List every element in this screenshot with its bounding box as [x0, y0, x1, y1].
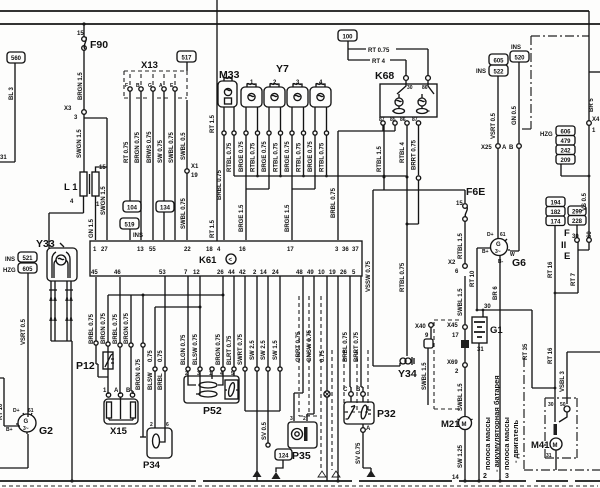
ground node 2 battery strap: [477, 473, 487, 483]
svg-text:BRBL 0.75: BRBL 0.75: [113, 313, 119, 344]
svg-text:F: F: [125, 83, 128, 89]
connector X45 pin 17: [447, 323, 467, 339]
svg-text:X69: X69: [447, 360, 458, 366]
svg-text:полоса массы: полоса массы: [502, 417, 511, 470]
wire BRBL 0.75 K61-46 to X15-A: [113, 277, 122, 394]
svg-text:RT 4: RT 4: [372, 59, 386, 65]
svg-text:560: 560: [11, 56, 22, 62]
svg-text:48: 48: [296, 270, 303, 276]
screen dash long: [318, 296, 340, 477]
svg-text:Y7: Y7: [276, 63, 289, 75]
injector Y7-3: [287, 80, 308, 135]
svg-text:BRBL 0.75: BRBL 0.75: [217, 169, 223, 200]
svg-text:RTBL 0.75: RTBL 0.75: [320, 142, 326, 172]
wire P52 mid pin: [210, 367, 214, 376]
svg-text:D+: D+: [487, 232, 494, 238]
svg-text:299: 299: [572, 210, 583, 216]
svg-text:VSSW 0.75: VSSW 0.75: [366, 260, 372, 292]
svg-text:X3: X3: [64, 106, 72, 112]
ignition switch terminals F II E 30/60: [561, 225, 593, 262]
svg-text:0.75: 0.75: [148, 350, 154, 362]
wire BR 5 from bus to X4: [589, 11, 600, 121]
svg-text:RT 35: RT 35: [523, 343, 529, 360]
ignition coil L1: [64, 165, 107, 208]
fuse F6E: [456, 186, 485, 264]
svg-text:M: M: [462, 422, 467, 428]
connector X3 pin 3: [64, 106, 86, 121]
wire BLSW K61-53 to P34: [148, 307, 157, 428]
wire BRGN 1.5 F90 to X3: [78, 72, 84, 100]
svg-text:17: 17: [452, 333, 459, 339]
svg-text:RT 10: RT 10: [470, 270, 476, 287]
wire BRBL 0.75 K61-45 to P12 branch: [89, 277, 108, 377]
ground dashed strap line bottom: [2, 485, 598, 487]
throttle potentiometer P52: [184, 371, 239, 417]
svg-text:SWBL 1.5: SWBL 1.5: [422, 362, 428, 390]
svg-text:INS: INS: [511, 45, 521, 51]
svg-text:37: 37: [352, 247, 359, 253]
svg-text:G: G: [148, 83, 152, 89]
svg-text:F90: F90: [90, 39, 108, 51]
svg-text:B+: B+: [482, 249, 489, 255]
svg-text:BR 5: BR 5: [589, 98, 595, 112]
wire BRRT 0.75 K61-5 to P32 B: [354, 276, 363, 392]
svg-text:G: G: [496, 242, 501, 248]
svg-text:VSBL 3: VSBL 3: [560, 370, 566, 392]
alternator G2: [6, 408, 53, 437]
svg-text:4: 4: [70, 199, 74, 205]
wire RTBL 0.75 inj4: [320, 135, 327, 176]
X13 pin G: [148, 74, 155, 91]
svg-text:2: 2: [303, 416, 306, 422]
svg-text:SWBL 1.5: SWBL 1.5: [458, 383, 464, 411]
wire RTBL 0.75 inj3: [297, 135, 304, 176]
svg-text:X1: X1: [191, 164, 199, 170]
wire RT 10 to G2 B+: [0, 378, 20, 426]
wire SWGN 1.5 X3 to coil L1 term left: [77, 114, 84, 172]
svg-text:SWGN 1.5: SWGN 1.5: [101, 186, 107, 215]
K61 bottom pin numbers: [91, 270, 356, 276]
svg-text:BRGN 0.75: BRGN 0.75: [136, 358, 142, 390]
svg-text:L 1: L 1: [64, 182, 78, 193]
svg-text:M41: M41: [531, 440, 550, 451]
svg-text:30: 30: [484, 304, 491, 310]
ground strap text engine: [502, 417, 520, 470]
wire RT 10 G6 B+ to battery rail: [470, 248, 489, 310]
svg-text:- двигатель: - двигатель: [511, 420, 520, 463]
svg-text:104: 104: [127, 206, 138, 212]
svg-text:SWBL 0.75: SWBL 0.75: [169, 131, 175, 163]
svg-text:194: 194: [550, 201, 561, 207]
relay K68: [375, 70, 437, 125]
svg-text:605: 605: [22, 267, 33, 273]
battery G1: [472, 304, 503, 353]
svg-text:1: 1: [93, 247, 97, 253]
svg-text:49: 49: [307, 270, 314, 276]
svg-text:C: C: [343, 387, 348, 393]
connector X25 pin B: [509, 144, 521, 151]
svg-text:7: 7: [184, 270, 188, 276]
svg-text:BRGN 0.75: BRGN 0.75: [216, 333, 222, 365]
wire RT 1.5 from bus 30 to K61: [210, 11, 217, 241]
svg-text:BRGE 0.75: BRGE 0.75: [262, 141, 268, 172]
wire BRGN 0.75 K61-26 to P52: [216, 276, 225, 376]
wire BRBL 0.75 M33 to K61: [217, 135, 224, 240]
svg-text:BLGN 0.75: BLGN 0.75: [181, 334, 187, 365]
wire VSRT 0.5 to X25-A: [491, 76, 498, 143]
svg-text:RTBL 4: RTBL 4: [400, 141, 406, 163]
X13 pin A: [159, 74, 166, 91]
svg-text:SW 2.5: SW 2.5: [261, 340, 267, 360]
svg-text:6: 6: [166, 422, 169, 428]
svg-text:60: 60: [587, 231, 593, 238]
svg-text:BRBL 0.75: BRBL 0.75: [331, 187, 337, 218]
svg-text:BRGE 0.75: BRGE 0.75: [285, 141, 291, 172]
wire RT 35 rail to starter: [523, 310, 555, 388]
svg-text:G1: G1: [490, 325, 503, 336]
wire SWBL 0.5 code 517 to X1: [181, 62, 187, 169]
wire BRGN 0.75 passing X15: [136, 295, 146, 437]
wire BRBL 0.75 K61-26 to P32 C: [343, 276, 351, 392]
wire BRGE 1.5 to K61 (inj3-4): [285, 189, 292, 240]
svg-text:2: 2: [150, 422, 153, 428]
svg-text:BLSW: BLSW: [148, 372, 154, 390]
wire SV 0.5 to code 124: [262, 421, 270, 447]
svg-text:134: 134: [160, 206, 171, 212]
wire SWRT 0.75 K61-42 ground bundle: [238, 276, 247, 411]
svg-text:M: M: [553, 443, 558, 449]
X13 pin B: [136, 74, 143, 91]
wire BRGE 0.75 inj2: [262, 135, 269, 189]
wire battery G1 to ground node 2: [478, 343, 480, 481]
svg-text:RT 7: RT 7: [571, 272, 577, 286]
connector X13 (dashed): [124, 60, 187, 98]
code box 517: [177, 51, 196, 62]
svg-text:RTBL 0.75: RTBL 0.75: [297, 142, 303, 172]
svg-text:RTBL 1.5: RTBL 1.5: [377, 145, 383, 172]
code box 519: [120, 218, 143, 240]
svg-text:3: 3: [74, 115, 78, 121]
battery positive rail: [476, 309, 532, 312]
svg-text:VSRT 0.5: VSRT 0.5: [491, 112, 497, 139]
svg-text:VS 0.5: VS 0.5: [582, 192, 588, 211]
connector X15: [103, 388, 138, 437]
svg-text:31: 31: [546, 453, 552, 459]
wire SWBL 0.75 X1 to K61: [181, 173, 187, 240]
section divider dash-dot right (engine bay): [524, 358, 600, 470]
svg-text:1: 1: [592, 128, 596, 134]
svg-text:RTBL 0.75: RTBL 0.75: [400, 262, 406, 292]
wire BRGN 0.75 to X15-B: [124, 295, 133, 394]
wire HZG stack to BR5 line: [561, 164, 589, 176]
wire BRGE 0.75 inj3: [285, 135, 292, 189]
svg-text:228: 228: [572, 219, 583, 225]
svg-text:P12: P12: [76, 360, 95, 372]
svg-text:6: 6: [455, 269, 459, 275]
svg-text:520: 520: [514, 56, 525, 62]
svg-text:BRGN 0.75: BRGN 0.75: [135, 131, 141, 163]
svg-text:F6E: F6E: [466, 186, 485, 198]
svg-text:15: 15: [77, 31, 84, 37]
X13 pin E: [170, 74, 177, 91]
svg-text:BRGE 1.5: BRGE 1.5: [239, 204, 245, 232]
svg-text:19: 19: [329, 270, 336, 276]
wire BRGE 1.5 to K61 (inj1-2): [239, 189, 246, 240]
svg-text:G2: G2: [39, 425, 53, 437]
svg-text:42: 42: [239, 270, 246, 276]
frame tick top: [216, 0, 218, 11]
code box 124: [275, 449, 292, 472]
X13 pin F: [125, 74, 132, 91]
wire RTBL 0.75 inj2: [274, 135, 281, 176]
svg-text:53: 53: [159, 270, 166, 276]
svg-text:519: 519: [124, 223, 135, 229]
wire RTBL 0.75 inj1: [251, 135, 258, 176]
svg-text:<: <: [229, 258, 233, 264]
wire X25-A to G6 D+: [497, 148, 499, 237]
svg-text:SV 0.75: SV 0.75: [356, 442, 362, 464]
wire X25-B to G6 W: [510, 148, 519, 251]
svg-text:RTBL 1.5: RTBL 1.5: [458, 232, 464, 259]
svg-text:B: B: [356, 387, 361, 393]
svg-text:26: 26: [340, 270, 347, 276]
svg-text:521: 521: [22, 256, 33, 262]
svg-text:G6: G6: [512, 257, 526, 269]
svg-text:HZG: HZG: [3, 268, 16, 274]
svg-text:BRBL 0.75: BRBL 0.75: [89, 313, 95, 344]
ground triangle splice right: [272, 472, 281, 479]
wire RT 4 code 100 to K68 pin 30: [348, 59, 406, 75]
connector X2 pin 6: [448, 260, 467, 275]
wire SWBL 1.5 X69 to M21: [458, 367, 465, 417]
svg-text:16: 16: [239, 247, 246, 253]
wire SW 1.5 K61-24: [273, 276, 282, 411]
connector X4 pin 1: [587, 117, 600, 134]
ECU K61 box: [90, 241, 362, 276]
svg-text:полоса массы: полоса массы: [483, 417, 492, 470]
wire SW 1.25 M21 to ground node 14: [452, 430, 467, 483]
svg-text:BRGN 0.75: BRGN 0.75: [101, 312, 107, 344]
svg-text:12: 12: [193, 270, 200, 276]
svg-text:B: B: [126, 388, 131, 394]
svg-text:14: 14: [260, 270, 267, 276]
BRGE join bus inj3-4: [292, 188, 315, 190]
svg-text:55: 55: [149, 247, 156, 253]
injector Y7-1: [241, 80, 262, 135]
wire VSRT 0.5 codes to G2 D+: [21, 273, 28, 417]
svg-text:RT 1.5: RT 1.5: [210, 114, 216, 133]
svg-text:A: A: [366, 426, 371, 432]
svg-text:X15: X15: [110, 426, 128, 437]
svg-text:X40: X40: [415, 324, 426, 330]
wire BRWS 0.75 X13-G to K61: [147, 91, 153, 240]
svg-text:VSRT 0.5: VSRT 0.5: [21, 318, 27, 345]
svg-text:BLSW 0.75: BLSW 0.75: [193, 333, 199, 365]
svg-text:P52: P52: [203, 405, 222, 417]
svg-text:RTBL 0.75: RTBL 0.75: [227, 142, 233, 172]
svg-text:3~: 3~: [495, 249, 501, 255]
svg-text:5: 5: [352, 270, 356, 276]
svg-text:BLRT 0.75: BLRT 0.75: [227, 335, 233, 365]
svg-text:517: 517: [181, 56, 192, 62]
svg-text:P34: P34: [143, 460, 161, 471]
connector X40 pin 9: [415, 323, 433, 348]
svg-text:SW 0.75: SW 0.75: [158, 139, 164, 163]
svg-text:BRGE 0.75: BRGE 0.75: [239, 141, 245, 172]
code box 520 INS: [510, 45, 529, 62]
code stack 194/182/174: [546, 197, 565, 226]
wire RTBL 0.75 supply to Y34: [400, 176, 407, 356]
code box 560: [7, 52, 25, 63]
air flow sensor P32: [343, 387, 396, 424]
jog wire K61-26 to BRGN column: [108, 294, 225, 297]
M33 legs to terminal circles: [222, 107, 236, 135]
svg-text:31: 31: [0, 155, 7, 161]
svg-text:BRBL: BRBL: [158, 373, 164, 390]
svg-text:B+: B+: [6, 427, 13, 433]
svg-text:F: F: [564, 228, 570, 239]
screen dashes P32: [344, 350, 368, 412]
svg-text:BRGE 0.75: BRGE 0.75: [308, 141, 314, 172]
code stack HZG 606/479/242/209: [540, 126, 575, 164]
screen dashes P35: [299, 296, 317, 416]
K61 top pin numbers: [93, 247, 359, 253]
svg-text:BRGN 0.75: BRGN 0.75: [124, 312, 130, 344]
svg-text:479: 479: [560, 139, 571, 145]
svg-text:9: 9: [425, 333, 429, 339]
svg-text:A: A: [114, 388, 119, 394]
wire RTBL 1.5 K68 to injector bus: [377, 125, 384, 176]
svg-text:RT 16: RT 16: [548, 261, 554, 278]
ground node 3 engine strap: [498, 473, 509, 483]
Y33 ground link to bus: [51, 341, 74, 483]
dashed option branch X40: [434, 320, 462, 409]
svg-text:X13: X13: [141, 60, 158, 71]
svg-text:45: 45: [91, 270, 98, 276]
code box 100: [338, 30, 357, 41]
svg-text:22: 22: [184, 247, 191, 253]
svg-text:BRGE 1.5: BRGE 1.5: [285, 204, 291, 232]
connector X25 pin A: [481, 144, 507, 151]
svg-text:31: 31: [477, 347, 484, 353]
svg-text:30: 30: [407, 85, 413, 91]
fuse F90: [77, 22, 108, 110]
wire BRGE 0.75 inj1: [239, 135, 246, 189]
svg-text:K61: K61: [199, 255, 217, 266]
code box 104: [123, 201, 141, 212]
svg-text:INS: INS: [476, 69, 486, 75]
svg-text:209: 209: [560, 158, 571, 164]
svg-text:X25: X25: [481, 145, 492, 151]
wire RTBL 4 K68 down: [400, 125, 407, 176]
valve Y34: [398, 357, 417, 380]
wire SW 2.5 K61-2: [250, 276, 259, 475]
svg-text:B-: B-: [498, 259, 504, 265]
svg-text:E: E: [564, 251, 570, 262]
svg-text:SWGN 1.5: SWGN 1.5: [77, 129, 83, 158]
svg-text:606: 606: [560, 130, 571, 136]
wire SWBL 1.5 X40 to M21: [422, 348, 428, 405]
svg-text:182: 182: [550, 210, 561, 216]
wire BRBL to P34: [158, 276, 167, 428]
svg-text:1: 1: [96, 202, 100, 208]
wire RTBL to fuse F6E: [373, 176, 465, 226]
svg-text:RT 10: RT 10: [0, 403, 4, 420]
svg-text:A: A: [502, 145, 507, 151]
wire BRRT 0.75 K68 pin: [407, 125, 421, 224]
wire BRGN 0.75 X13-B to K61 pin 27: [135, 91, 141, 240]
svg-text:SWRT 0.75: SWRT 0.75: [238, 333, 244, 365]
wire coil L1 pin 4 to valve Y33: [49, 196, 84, 248]
svg-text:3: 3: [335, 247, 339, 253]
connector X1 pin 19: [185, 164, 199, 179]
svg-text:124: 124: [278, 454, 289, 460]
wire GN 0.5 to X25-B: [512, 62, 519, 143]
svg-text:RT 16: RT 16: [548, 347, 554, 364]
sensor P34: [143, 422, 172, 471]
wire BL 3 from box 560 to left edge: [0, 63, 15, 162]
svg-text:2: 2: [455, 369, 459, 375]
svg-text:174: 174: [550, 220, 561, 226]
wire BLGN 0.75 K61-7 to P52: [181, 276, 190, 376]
svg-text:X4: X4: [592, 117, 600, 123]
svg-text:X45: X45: [447, 323, 458, 329]
svg-text:BRGN 1.5: BRGN 1.5: [78, 72, 84, 100]
svg-text:3: 3: [290, 416, 293, 422]
svg-text:G: G: [24, 419, 29, 425]
code boxes 605/522 INS: [476, 54, 508, 76]
code box 134: [156, 201, 174, 212]
wire GN 1.5 coil L1 pin 1 to K61: [89, 196, 96, 240]
svg-text:SV 0.5: SV 0.5: [262, 421, 268, 440]
wire RT 0.75 code 100 to K68 pin 86: [348, 41, 428, 75]
svg-text:RTBL 0.75: RTBL 0.75: [274, 142, 280, 172]
injector supply bus RTBL: [234, 175, 407, 178]
wire BRBL 0.75 K68 to K61: [331, 131, 383, 240]
svg-text:RT 1.5: RT 1.5: [210, 219, 216, 238]
sensor P12: [76, 295, 114, 394]
svg-text:605: 605: [493, 59, 504, 65]
svg-text:46: 46: [114, 270, 121, 276]
svg-text:RT 0.75: RT 0.75: [124, 141, 130, 163]
svg-text:M21: M21: [441, 419, 460, 430]
svg-text:14: 14: [452, 475, 459, 481]
svg-text:87: 87: [379, 117, 385, 123]
svg-text:Y34: Y34: [398, 368, 417, 380]
svg-text:GN 1.5: GN 1.5: [89, 218, 95, 238]
dash-dot branch rail top right: [519, 36, 589, 129]
alternator G6: [482, 232, 526, 269]
wire RT 0.75 X13-F to code 104: [124, 91, 130, 201]
svg-text:44: 44: [228, 270, 235, 276]
motor M21: [441, 417, 473, 431]
knock sensor P35: [288, 416, 317, 462]
svg-text:27: 27: [101, 247, 108, 253]
svg-text:30: 30: [548, 402, 554, 408]
svg-text:SWBL 0.5: SWBL 0.5: [181, 132, 187, 160]
wire GRRT 0.75 K61-48 to P35: [294, 276, 303, 421]
svg-text:61: 61: [28, 408, 34, 414]
wire VSBL 3 to starter 50: [560, 352, 600, 404]
svg-text:0.75: 0.75: [158, 350, 164, 362]
wire BRGE 0.75 inj4: [308, 135, 315, 189]
svg-text:17: 17: [287, 247, 294, 253]
injector Y7-2: [264, 80, 285, 135]
wire SWGN 1.5 X3 branch to K61 pin 1: [84, 118, 107, 240]
svg-text:INS: INS: [5, 257, 15, 263]
code stack 299/228: [568, 206, 586, 225]
svg-text:RTBL 0.75: RTBL 0.75: [251, 142, 257, 172]
